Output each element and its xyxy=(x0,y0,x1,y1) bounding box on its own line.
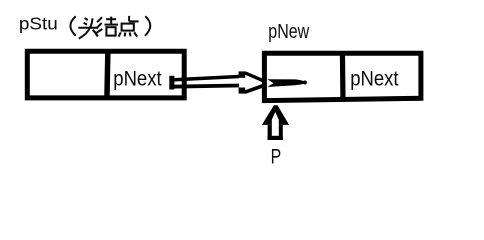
arrow P up pointer stem xyxy=(268,125,283,140)
wire arrow shaft top line xyxy=(170,77,240,81)
node box pNew divider xyxy=(340,52,346,102)
wire arrow pStu.pNext to pNew : hollow shaft left cap xyxy=(169,76,174,90)
node box pStu (head node) outer rect xyxy=(27,51,184,98)
node box pNew outer rect xyxy=(264,53,421,100)
svg-text:P: P xyxy=(271,145,282,169)
label pStu xyxy=(19,14,58,33)
svg-text:pStu: pStu xyxy=(19,14,58,33)
wire arrow hollow head bottom barb xyxy=(239,85,265,94)
label pNew xyxy=(268,19,309,42)
svg-text:pNext: pNext xyxy=(350,67,399,91)
label fullwidth close paren xyxy=(145,16,150,36)
svg-text:pNew: pNew xyxy=(268,19,309,42)
label hanzi tou (head) xyxy=(78,18,98,39)
label hanzi dian (point) xyxy=(119,16,139,37)
label pNext (right box) xyxy=(350,67,399,91)
wire arrow hollow head top barb xyxy=(239,71,265,81)
node box pStu divider xyxy=(107,49,108,100)
wire arrow solid tip xyxy=(267,79,307,87)
label pNext (left box) xyxy=(113,67,162,91)
label hanzi jie (knot) xyxy=(96,17,118,36)
label fullwidth open paren xyxy=(70,16,75,35)
svg-text:pNext: pNext xyxy=(113,67,162,91)
arrow P up pointer head xyxy=(262,105,289,125)
wire arrow shaft bottom line xyxy=(170,86,240,87)
label P xyxy=(271,145,282,169)
